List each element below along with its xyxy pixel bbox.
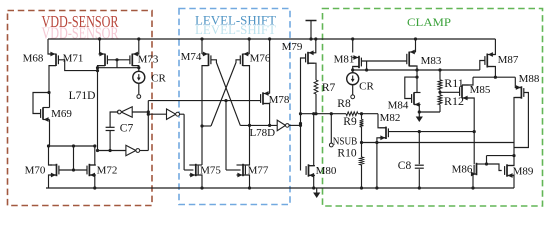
- wire R7 bottom: [315, 94, 317, 114]
- transistor M75: [189, 164, 198, 178]
- ground: [316, 188, 318, 194]
- junction M83-M84 drain: [415, 68, 418, 71]
- junction M84 gate loop: [415, 76, 418, 79]
- wire M77 drain up: [243, 125, 250, 165]
- wire M70 source down: [49, 175, 57, 188]
- junction long vertical bottom: [96, 149, 99, 152]
- top supply rail: [48, 38, 495, 40]
- wire to R9: [361, 114, 363, 120]
- junction M72 drain: [93, 144, 96, 147]
- svg-text:R7: R7: [322, 82, 336, 94]
- junction V1: [96, 66, 99, 69]
- wire M77 gate lead: [226, 169, 241, 171]
- svg-text:M75: M75: [200, 165, 221, 177]
- junction rail M75: [200, 186, 203, 189]
- wire oscillator node: [98, 150, 126, 152]
- junction rail-M81: [351, 37, 354, 40]
- svg-text:C7: C7: [120, 123, 134, 135]
- junction R11 top: [438, 68, 441, 71]
- wire inverter output to C7: [110, 112, 118, 127]
- svg-text:M74: M74: [181, 51, 202, 63]
- inverter (right-pointing, lower): [126, 145, 136, 155]
- terminal CR bottom: [137, 95, 141, 99]
- wire rail to M81 source: [352, 39, 354, 53]
- VDD-SENSOR dashed box: [8, 11, 153, 206]
- junction gate line: [299, 124, 302, 127]
- junction C7 bottom: [109, 149, 112, 152]
- svg-text:M83: M83: [421, 55, 442, 67]
- junction left latch node: [200, 124, 203, 127]
- svg-text:M77: M77: [248, 165, 269, 177]
- capacitor C7: [106, 126, 115, 128]
- wire M87 drain down: [487, 67, 495, 78]
- wire down to M69 drain: [49, 93, 51, 108]
- wire M86 drain up: [486, 156, 488, 164]
- svg-text:M80: M80: [316, 165, 337, 177]
- svg-text:L71D: L71D: [69, 90, 96, 102]
- wire rail to M68 source: [48, 39, 51, 54]
- wire R10 bottom: [361, 165, 363, 188]
- wire M84 source to ground: [414, 105, 419, 113]
- svg-text:R11: R11: [444, 76, 464, 90]
- junction M86 gate: [473, 130, 476, 133]
- wire M75 drain lead: [196, 164, 202, 166]
- svg-text:CR: CR: [151, 73, 166, 85]
- wire left latch stub: [202, 125, 211, 127]
- wire M88 drain down: [514, 98, 521, 156]
- junction M77 drain: [248, 124, 251, 127]
- wire M68 gate to V1 node: [59, 60, 98, 71]
- junction rail M82: [375, 186, 378, 189]
- transistor M77: [237, 164, 246, 178]
- svg-text:R9: R9: [343, 116, 357, 128]
- wire CR bottom lead: [352, 85, 354, 95]
- wire C7 bottom: [109, 131, 111, 151]
- junction rail-M71: [98, 37, 101, 40]
- wire M74 drain down: [202, 66, 209, 165]
- inverter L78D: [277, 120, 285, 131]
- wire buffer output: [179, 113, 184, 115]
- svg-text:M89: M89: [513, 166, 534, 178]
- junction R9-R10 mid: [360, 141, 363, 144]
- junction rail M77: [248, 186, 251, 189]
- junction gate tap: [365, 68, 368, 71]
- wire M86 gate down: [473, 132, 475, 164]
- wire to R11: [439, 70, 441, 80]
- svg-text:M84: M84: [388, 100, 409, 112]
- current source CR (clamp): [347, 73, 359, 85]
- wire M76 drain down: [243, 66, 250, 126]
- svg-text:M72: M72: [97, 165, 118, 177]
- svg-text:M86: M86: [452, 164, 473, 176]
- wire M89 drain up: [507, 156, 514, 166]
- junction buffer tap: [147, 113, 150, 116]
- cross-couple diagonal 1 (M74 gate to right node): [211, 60, 240, 126]
- wire M82 drain up: [378, 114, 386, 128]
- wire M73 drain down to CR: [132, 66, 139, 72]
- junction rail-M79: [314, 37, 317, 40]
- wire M87 gate: [480, 61, 485, 71]
- svg-text:M70: M70: [25, 165, 46, 177]
- wire C8 bottom: [418, 169, 420, 188]
- junction rail M86: [471, 186, 474, 189]
- wire M86 drain lead: [483, 163, 487, 165]
- transistor M72: [87, 164, 96, 178]
- svg-text:M81: M81: [334, 54, 355, 66]
- transistor M73: [130, 52, 139, 66]
- transistor M76: [240, 52, 249, 66]
- junction M86-M89 node: [512, 154, 515, 157]
- svg-text:M88: M88: [519, 73, 540, 85]
- resistor R8: [346, 112, 358, 116]
- wire M81 gate tap: [366, 61, 368, 70]
- transistor M69: [41, 107, 50, 122]
- wire M71 drain down V1: [98, 66, 106, 151]
- svg-text:M87: M87: [498, 54, 519, 66]
- wire M85 source down: [462, 98, 474, 132]
- wire M69 diode loop: [33, 93, 49, 114]
- junction rail M80: [312, 186, 315, 189]
- wire M89 source down: [507, 176, 514, 189]
- junction M87 drain: [494, 76, 497, 79]
- wire M83 drain down: [409, 66, 417, 70]
- transistor M82: [380, 127, 389, 141]
- junction R7 node: [314, 112, 317, 115]
- junction ground node: [418, 110, 421, 113]
- wire rail to M78 source: [269, 39, 271, 94]
- junction feedback node: [147, 110, 150, 113]
- wire M86 source (left): [473, 173, 477, 175]
- junction M77 gate tap: [224, 99, 227, 102]
- wire M79 gate down: [301, 58, 306, 171]
- junction R11-R12 mid: [438, 91, 441, 94]
- wire rail to M79 source: [313, 39, 316, 53]
- wire M71 gate to M73 gate: [108, 59, 130, 61]
- node M69 drain junction: [47, 91, 50, 94]
- wire M84 diode loop: [405, 77, 417, 98]
- transistor M83: [407, 50, 416, 67]
- junction M82 source: [375, 141, 378, 144]
- svg-text:R10: R10: [337, 148, 356, 160]
- wire rail to M73 source: [136, 39, 139, 54]
- wire rail end to M87 source: [493, 39, 496, 55]
- junction M69 source node: [47, 144, 50, 147]
- wire M80 source down: [309, 175, 314, 188]
- wire M79 drain to R7: [308, 63, 316, 80]
- wire M80 drain up: [309, 114, 314, 166]
- bottom rail: [46, 187, 514, 189]
- wire rail to M76 source: [248, 39, 250, 54]
- wire M78 gate bus: [148, 100, 260, 102]
- resistor R12: [438, 95, 442, 105]
- junction rail R10: [360, 186, 363, 189]
- junction rail C8: [418, 186, 421, 189]
- junction rail-M83: [414, 37, 417, 40]
- wire to M75 gate: [183, 114, 185, 170]
- svg-text:M85: M85: [470, 84, 491, 96]
- wire M86 source down: [473, 174, 477, 188]
- wire M81 drain down to CR: [353, 67, 359, 74]
- svg-text:CR: CR: [359, 81, 374, 93]
- transistor M88: [515, 85, 524, 99]
- wire M77 source down: [243, 175, 250, 188]
- svg-text:M73: M73: [138, 54, 159, 66]
- capacitor C8: [415, 164, 424, 166]
- svg-text:C8: C8: [398, 160, 412, 172]
- wire rail to M83 source: [415, 39, 417, 52]
- cross-couple diagonal 2 (M76 gate to left node): [211, 60, 240, 126]
- transistor M71: [99, 52, 108, 66]
- junction divider top: [360, 112, 363, 115]
- transistor M81: [353, 55, 362, 68]
- junction drain bus: [137, 66, 140, 69]
- junction L78D out on gate line: [299, 122, 302, 125]
- wire to M85 gate: [440, 91, 460, 93]
- wire R8 to M82 drain: [358, 113, 378, 115]
- wire M89 gate link: [487, 164, 502, 171]
- terminal CR bottom (clamp): [351, 95, 355, 99]
- svg-text:M71: M71: [63, 53, 84, 65]
- junction rail-M73: [137, 37, 140, 40]
- junction clamp gate bus left: [351, 68, 354, 71]
- wire R12 bottom: [439, 105, 441, 112]
- junction rail-M74: [200, 37, 203, 40]
- wire R11-R12: [439, 90, 441, 95]
- wire L78D output: [289, 124, 300, 126]
- wire M88 source from bus: [515, 77, 521, 87]
- wire M84 drain: [416, 70, 418, 93]
- wire M70-M72 gate bus: [59, 169, 87, 171]
- svg-text:M76: M76: [250, 53, 271, 65]
- VDD symbol: [310, 21, 312, 40]
- wire branch to gate bus: [73, 146, 75, 170]
- ground (clamp): [418, 112, 420, 118]
- wire ground link: [419, 111, 440, 113]
- inverter (buffer to level-shift): [167, 109, 176, 119]
- wire M75 gate lead: [184, 169, 193, 171]
- wire latch output node: [240, 124, 277, 126]
- svg-text:NSUB: NSUB: [333, 137, 358, 148]
- wire M75 source down: [196, 175, 202, 188]
- wire M68 drain down: [49, 66, 56, 93]
- transistor M80: [306, 164, 315, 177]
- wire inverter input: [132, 111, 148, 113]
- svg-text:VDD-SENSOR: VDD-SENSOR: [42, 24, 119, 43]
- wire rail to M71 source: [99, 39, 101, 54]
- junction V1 M68 gate: [96, 69, 99, 72]
- wire lower inverter output: [140, 150, 149, 152]
- wire clamp drain bus: [353, 69, 480, 71]
- wire M69 source down: [49, 120, 51, 147]
- svg-text:M82: M82: [380, 112, 401, 124]
- svg-text:R12: R12: [444, 94, 464, 108]
- transistor M68: [50, 52, 59, 66]
- junction C8 tap: [418, 130, 421, 133]
- junction rail M72: [93, 186, 96, 189]
- junction M78 drain node: [268, 124, 271, 127]
- wire M85 drain up: [462, 77, 473, 85]
- junction gate mirror: [115, 58, 118, 61]
- junction gate-node wire: [299, 112, 302, 115]
- resistor R9: [360, 119, 364, 127]
- wire M72 drain lead: [89, 146, 94, 165]
- wire lower-left node: [49, 145, 95, 147]
- transistor M87: [485, 52, 494, 67]
- svg-text:LEVEL-SHIFT: LEVEL-SHIFT: [195, 23, 276, 37]
- wire M86 drain bus: [487, 155, 515, 157]
- junction M86 drain / M89 gate: [485, 162, 488, 165]
- current source CR (vdd-sensor): [133, 71, 145, 83]
- svg-text:M79: M79: [282, 41, 303, 53]
- junction rail-M76: [248, 37, 251, 40]
- inverter (left-pointing, feedback): [121, 107, 132, 117]
- wire M88 gate down: [514, 93, 528, 148]
- wire R9 to R10: [361, 127, 363, 157]
- transistor M74: [202, 52, 211, 66]
- transistor M85: [460, 85, 469, 100]
- junction NSUB tap: [330, 112, 333, 115]
- resistor R11: [438, 80, 442, 90]
- wire M82 source down: [377, 138, 386, 188]
- svg-text:M68: M68: [23, 53, 44, 65]
- LEVEL-SHIFT dashed box: [179, 9, 290, 205]
- wire drain bus M71-M73: [98, 67, 139, 69]
- transistor M86: [474, 163, 483, 175]
- wire C8 top: [418, 132, 420, 165]
- wire clamp mid bus: [362, 142, 515, 144]
- junction gate bus: [72, 168, 75, 171]
- wire buffer input: [148, 113, 166, 115]
- wire M81 gate: [362, 60, 407, 62]
- wire M70 gate from node: [49, 146, 53, 165]
- transistor M70: [50, 164, 59, 178]
- resistor R10: [360, 157, 364, 165]
- svg-text:L78D: L78D: [249, 127, 275, 139]
- wire NSUB down: [330, 114, 332, 143]
- svg-text:R8: R8: [337, 98, 351, 110]
- junction M80 drain node: [312, 112, 315, 115]
- terminal NSUB: [329, 143, 333, 147]
- wire gate tap down: [116, 60, 118, 68]
- transistor M84: [412, 92, 421, 107]
- resistor R7: [314, 80, 318, 94]
- transistor M79: [306, 50, 315, 64]
- transistor M78: [261, 91, 270, 105]
- wire M72 source down: [89, 175, 94, 188]
- wire M87 drain bus: [473, 76, 515, 78]
- CLAMP dashed box: [323, 9, 543, 207]
- wire feedback vertical: [147, 101, 149, 151]
- wire to M77 gate: [225, 101, 227, 170]
- wire sense node: [301, 113, 347, 115]
- wire M78 drain down: [263, 104, 270, 126]
- svg-text:M69: M69: [51, 108, 72, 120]
- transistor M89: [505, 164, 514, 178]
- junction rail-M78: [268, 37, 271, 40]
- wire CR bottom lead: [138, 83, 140, 94]
- wire rail to M74 source: [201, 39, 203, 54]
- junction rail-VDD: [309, 37, 312, 40]
- svg-text:M78: M78: [269, 94, 290, 106]
- svg-text:CLAMP: CLAMP: [407, 15, 451, 29]
- wire M82 gate bus: [389, 131, 475, 133]
- junction gate branch: [72, 144, 75, 147]
